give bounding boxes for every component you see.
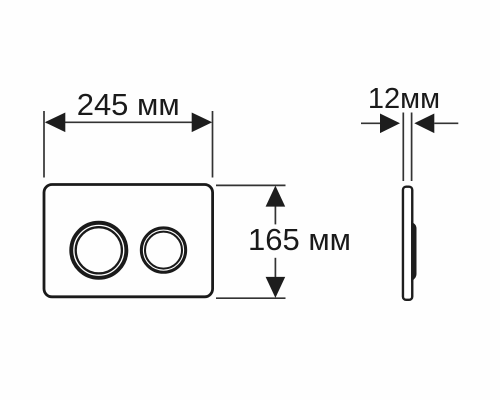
large button ring left — [71, 223, 126, 278]
arrowhead pointing right — [380, 114, 400, 134]
small button ring right — [141, 228, 185, 272]
12 mm dimension — [361, 113, 458, 182]
thickness extension line right — [411, 113, 413, 182]
arrowhead left — [45, 113, 66, 133]
svg-text:165 мм: 165 мм — [248, 222, 351, 257]
165 mm dimension — [216, 185, 286, 298]
extension line left — [43, 111, 45, 178]
thickness extension line left — [402, 113, 404, 182]
arrowhead down — [266, 277, 286, 298]
svg-text:245 мм: 245 мм — [77, 87, 180, 122]
side view plate profile — [403, 187, 412, 300]
extension line top — [216, 184, 286, 186]
arrowhead right — [192, 113, 213, 133]
245 mm dimension — [44, 111, 213, 178]
dimension line — [46, 121, 211, 123]
arrowhead up — [266, 186, 286, 207]
extension line right — [212, 111, 214, 178]
dimension line upper segment — [274, 206, 276, 224]
dimension line lower segment — [274, 258, 276, 278]
extension line bottom — [216, 297, 286, 299]
flush plate front view — [44, 185, 213, 297]
svg-text:12мм: 12мм — [368, 83, 440, 115]
side view button bump — [411, 221, 416, 283]
leader line right — [434, 122, 458, 124]
leader line left — [361, 122, 381, 124]
arrowhead pointing left — [414, 114, 434, 134]
